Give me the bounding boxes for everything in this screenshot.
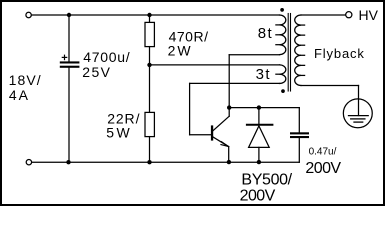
svg-text:BY500/: BY500/ [241,171,292,188]
svg-text:2W: 2W [168,43,193,59]
svg-text:3t: 3t [256,66,271,83]
svg-text:5W: 5W [106,125,132,141]
svg-text:4A: 4A [9,87,30,103]
svg-text:200V: 200V [305,160,341,177]
svg-text:Flyback: Flyback [314,46,365,61]
svg-text:HV: HV [359,7,379,23]
svg-text:0.47u/: 0.47u/ [309,147,337,158]
svg-text:8t: 8t [258,25,273,42]
svg-text:200V: 200V [240,188,276,205]
svg-text:4700u/: 4700u/ [83,49,130,65]
svg-text:18V/: 18V/ [9,72,42,88]
svg-text:25V: 25V [82,64,111,80]
